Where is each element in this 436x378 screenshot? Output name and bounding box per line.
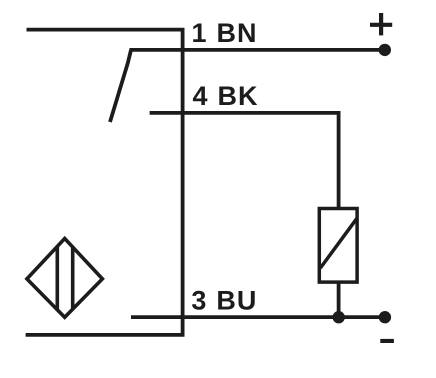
svg-text:1 BN: 1 BN bbox=[192, 18, 258, 48]
svg-text:3 BU: 3 BU bbox=[191, 286, 257, 316]
svg-text:4 BK: 4 BK bbox=[193, 81, 259, 111]
